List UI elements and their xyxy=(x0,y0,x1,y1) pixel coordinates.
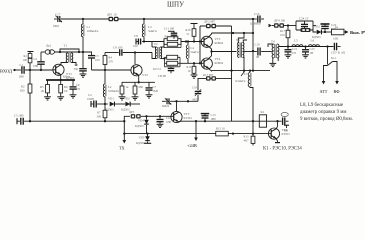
svg-text:6М2: 6М2 xyxy=(53,24,59,28)
svg-text:ТХ: ТХ xyxy=(119,146,125,151)
svg-text:С8: С8 xyxy=(134,34,138,38)
svg-text:100: 100 xyxy=(133,44,138,48)
svg-text:100Н: 100Н xyxy=(87,97,95,101)
svg-text:100: 100 xyxy=(23,58,28,62)
svg-text:R15: R15 xyxy=(187,66,192,69)
svg-text:L8, L9 бескаркасные: L8, L9 бескаркасные xyxy=(300,103,343,108)
svg-text:9 витков, провод Ø0,8мм.: 9 витков, провод Ø0,8мм. xyxy=(300,117,353,122)
svg-text:КТ815: КТ815 xyxy=(282,132,291,136)
svg-text:ВФ: ВФ xyxy=(334,89,341,94)
svg-text:Др1: Др1 xyxy=(46,44,52,48)
svg-text:1Н0: 1Н0 xyxy=(33,64,39,68)
svg-text:1М5: 1М5 xyxy=(153,89,159,93)
svg-text:ШПУ: ШПУ xyxy=(167,1,184,9)
svg-text:ДР5: ДР5 xyxy=(129,110,135,114)
svg-text:Т2: Т2 xyxy=(154,42,158,46)
svg-text:VD2: VD2 xyxy=(124,97,130,101)
svg-text:1Н0: 1Н0 xyxy=(166,120,172,124)
svg-text:51: 51 xyxy=(187,32,191,36)
svg-text:С16: С16 xyxy=(254,12,260,16)
svg-text:Вых. PWR: Вых. PWR xyxy=(350,30,365,35)
svg-text:5мкГн: 5мкГн xyxy=(191,50,199,54)
svg-text:С19: С19 xyxy=(255,43,261,47)
svg-text:4К7: 4К7 xyxy=(244,139,250,143)
svg-text:НВ: НВ xyxy=(284,130,288,133)
svg-text:VD5: VD5 xyxy=(139,136,145,140)
svg-text:С24 1Г: С24 1Г xyxy=(299,17,309,21)
svg-text:ДР4 100: ДР4 100 xyxy=(274,19,286,23)
svg-text:С11 180: С11 180 xyxy=(164,27,175,31)
svg-text:270: 270 xyxy=(109,60,114,64)
svg-text:5мкГн: 5мкГн xyxy=(148,29,157,33)
svg-text:1Н0: 1Н0 xyxy=(19,75,25,79)
svg-text:100: 100 xyxy=(280,33,285,37)
svg-text:1н: 1н xyxy=(335,25,339,29)
svg-text:С2: С2 xyxy=(34,57,38,61)
svg-text:R13 51: R13 51 xyxy=(153,68,161,71)
svg-text:VD1: VD1 xyxy=(108,97,114,101)
svg-text:VT2: VT2 xyxy=(142,73,148,77)
svg-text:100: 100 xyxy=(95,58,100,62)
svg-text:К1 - РЭС10, РЭС34: К1 - РЭС10, РЭС34 xyxy=(263,147,302,151)
svg-text:VD4: VD4 xyxy=(138,119,144,123)
svg-text:КД503: КД503 xyxy=(136,141,145,145)
svg-text:диаметр оправки 9 мм: диаметр оправки 9 мм xyxy=(300,110,346,115)
svg-text:330: 330 xyxy=(74,67,79,71)
svg-text:СН 4В: СН 4В xyxy=(158,75,166,78)
svg-text:VD2: VD2 xyxy=(314,25,320,29)
svg-text:С5 1Н0: С5 1Н0 xyxy=(14,114,24,118)
svg-text:L5: L5 xyxy=(294,39,298,43)
svg-text:С25* В. АЦ: С25* В. АЦ xyxy=(331,52,345,55)
svg-text:С17: С17 xyxy=(55,13,61,17)
svg-text:Н05: Н05 xyxy=(193,99,198,102)
svg-text:820мк: 820мк xyxy=(63,76,71,79)
svg-text:К1.1: К1.1 xyxy=(331,57,337,60)
svg-text:R12 10: R12 10 xyxy=(216,127,225,131)
svg-text:1Н0: 1Н0 xyxy=(211,117,217,121)
svg-text:100мкГн: 100мкГн xyxy=(87,29,99,33)
svg-text:КТ361: КТ361 xyxy=(184,116,193,120)
svg-text:С18: С18 xyxy=(192,87,197,90)
svg-text:R17 687: R17 687 xyxy=(203,73,214,77)
svg-text:6М22: 6М22 xyxy=(162,104,170,108)
svg-text:100мкГн: 100мкГн xyxy=(108,89,119,93)
svg-text:КП904: КП904 xyxy=(215,41,224,45)
svg-text:L6: L6 xyxy=(311,39,315,43)
svg-text:Т1: Т1 xyxy=(64,44,68,48)
svg-text:L7: L7 xyxy=(244,72,248,76)
svg-text:К1: К1 xyxy=(261,110,265,114)
svg-text:+24В: +24В xyxy=(187,143,197,148)
svg-text:КП904: КП904 xyxy=(215,61,224,65)
svg-text:10К: 10К xyxy=(333,37,339,41)
svg-text:АТТ: АТТ xyxy=(320,89,328,94)
svg-text:680: 680 xyxy=(139,85,144,89)
svg-text:ДР2 687: ДР2 687 xyxy=(204,20,216,24)
svg-text:Т4: Т4 xyxy=(271,40,275,44)
svg-text:300: 300 xyxy=(97,115,102,119)
svg-text:ВХОД: ВХОД xyxy=(0,69,12,74)
svg-text:820: 820 xyxy=(20,89,25,93)
svg-text:КД503: КД503 xyxy=(135,124,144,128)
svg-text:С9 100: С9 100 xyxy=(113,46,123,50)
svg-text:С1: С1 xyxy=(20,63,24,67)
svg-text:ДР1 10: ДР1 10 xyxy=(107,13,117,17)
